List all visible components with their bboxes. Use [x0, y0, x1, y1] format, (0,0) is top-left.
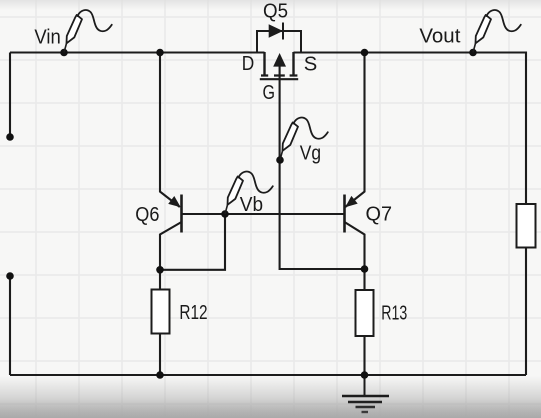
svg-text:S: S	[304, 53, 318, 75]
probe Vin	[64, 10, 112, 52]
transistor Q7	[345, 195, 393, 233]
Q5 drain bar	[263, 52, 265, 76]
resistor load right	[517, 204, 536, 248]
node R12 ground junction	[156, 371, 164, 379]
node Vin tap	[60, 49, 68, 57]
Q5 body diode cathode bar	[282, 23, 284, 40]
Q6 base bar	[180, 195, 183, 233]
node Vb	[221, 210, 229, 218]
wire top rail Vin side	[10, 51, 265, 53]
node left input endpoint	[6, 133, 14, 141]
wire Q5 gate to Vg and Q7 collector	[280, 66, 365, 269]
transistor Q5	[242, 0, 317, 104]
Q5 body diode loop	[257, 31, 301, 53]
node R13 ground junction	[361, 371, 369, 379]
Q5 channel dashes	[261, 74, 297, 76]
node left return endpoint	[6, 272, 14, 280]
wire load resistor to bottom rail	[525, 248, 527, 376]
node Q6 collector junction	[156, 266, 164, 274]
wire Q7 collector to R13	[345, 222, 365, 290]
wire left input stub	[9, 53, 11, 138]
svg-text:Q7: Q7	[366, 204, 393, 226]
svg-text:Vin: Vin	[34, 27, 60, 49]
Q5 source bar	[292, 52, 294, 76]
wire Vb tie to Q6 collector	[160, 214, 225, 270]
Q5 body arrow	[273, 53, 286, 67]
resistor R12	[152, 290, 170, 334]
svg-text:D: D	[242, 53, 255, 75]
Q6 emitter arrow	[168, 196, 181, 207]
node Q7 emitter tap	[361, 49, 369, 57]
wire Q6 emitter riser	[160, 53, 180, 208]
wire left return stub	[9, 276, 11, 375]
Q7 base bar	[343, 195, 346, 233]
node Q6 emitter tap	[156, 49, 164, 57]
wire Q7 emitter riser	[345, 53, 364, 208]
wire top rail Vout side	[294, 53, 527, 205]
svg-text:R12: R12	[179, 302, 207, 324]
ground symbol	[342, 375, 389, 412]
svg-text:R13: R13	[381, 303, 407, 325]
wire base rail Vb net	[182, 213, 345, 215]
wire Q6 collector to R12	[160, 222, 182, 290]
svg-text:Q5: Q5	[263, 0, 288, 22]
node Vg	[276, 156, 284, 164]
probe Vout	[473, 10, 521, 52]
svg-text:Q6: Q6	[135, 204, 159, 226]
probe Vg	[280, 118, 328, 160]
Q5 gate plate	[260, 78, 298, 80]
wire bottom rail	[10, 374, 526, 376]
node Vout tap	[469, 49, 477, 57]
svg-text:Vg: Vg	[300, 142, 321, 164]
probe Vb	[225, 172, 273, 214]
resistor R13	[356, 290, 374, 336]
Q5 body diode triangle	[269, 24, 283, 37]
Q7 emitter arrow	[345, 196, 358, 207]
transistor Q6	[135, 195, 181, 233]
svg-text:G: G	[263, 82, 276, 104]
svg-text:Vb: Vb	[240, 194, 263, 216]
wire R12 to bottom rail	[159, 334, 161, 376]
node Q7 collector junction	[361, 265, 369, 273]
wire R13 to bottom rail	[363, 336, 365, 375]
svg-text:Vout: Vout	[419, 25, 460, 47]
